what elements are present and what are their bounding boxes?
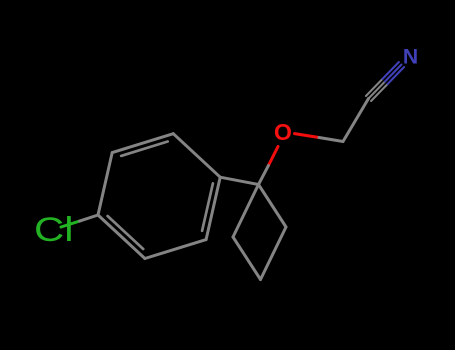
wire benzene inner double R-BR [202,183,213,230]
wire cyclobutane V2-CBL [233,185,259,238]
wire O to CH2: red half [295,134,320,138]
wire benzene edge BR-B [145,240,206,259]
wire cyclobutane CBR-V2 [259,185,287,228]
triple bond C#N blue halves [382,62,404,84]
wire Cl to ring: green half [61,221,80,227]
svg-text:Cl: Cl [34,211,74,249]
wire O to V2: gray half [259,166,269,185]
wire benzene edge R-BR [206,177,220,239]
wire benzene edge T-R [173,134,220,178]
wire CH2 to nitrile C [343,99,369,142]
wire benzene edge F-LU [98,153,112,215]
wire benzene inner double LU-T [121,142,168,156]
svg-text:N: N [403,46,418,69]
wire cyclobutane CBB-CBR [261,227,287,280]
wire benzene inner double B-F [108,216,144,249]
wire O to V2: red half [268,147,278,166]
svg-text:O: O [274,119,292,145]
wire O to CH2: gray half [319,138,343,142]
triple bond C#N gray halves [366,79,388,101]
wire benzene edge B-F [98,215,145,259]
wire ring ipso to quaternary C [220,177,258,184]
wire benzene edge LU-T [112,134,173,153]
wire cyclobutane CBL-CBB [233,237,261,280]
wire Cl to ring: gray half [80,215,98,221]
